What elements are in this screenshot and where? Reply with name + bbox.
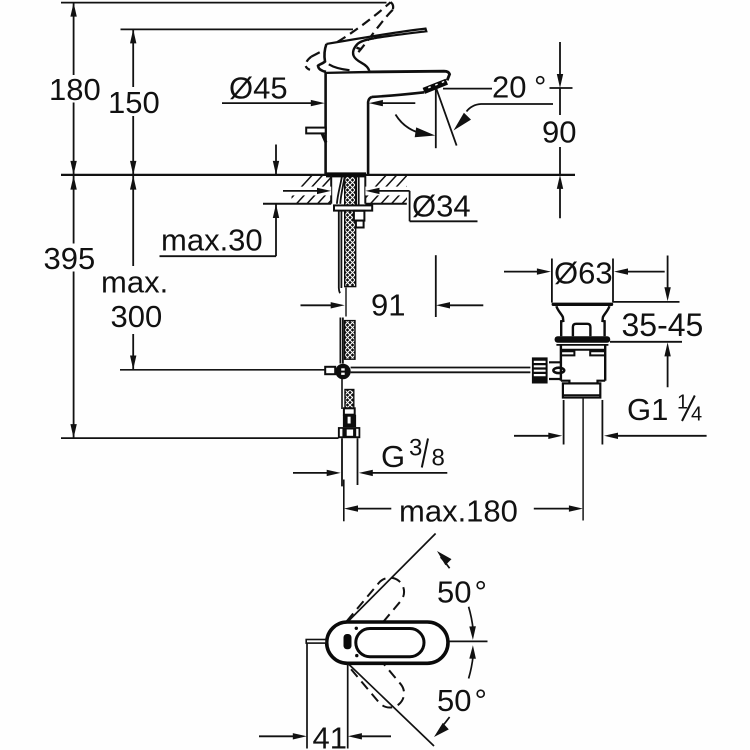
ball joint bbox=[335, 364, 350, 379]
bottom view: lower 50deg arc bbox=[441, 656, 474, 728]
dim Ø63 arrows bbox=[504, 271, 538, 273]
dim 90 shaft bbox=[559, 42, 561, 218]
svg-text:35-45: 35-45 bbox=[622, 307, 704, 343]
dim 91 left arrow bbox=[301, 304, 334, 306]
svg-text:3: 3 bbox=[409, 435, 422, 462]
wire: sink hole left edge bbox=[330, 176, 332, 204]
shank right sleeve lines bbox=[356, 176, 358, 205]
wire: countertop bottom line bbox=[263, 203, 407, 205]
drain overflow slot right bbox=[590, 351, 605, 355]
drain: clevis clip ellipse bbox=[553, 368, 564, 373]
dim G1 1/4 arrows bbox=[514, 435, 550, 437]
rod end cap bbox=[325, 367, 335, 374]
dim Ø45 left arrow bbox=[311, 100, 325, 106]
dim G3/8 arrows bbox=[293, 472, 329, 474]
svg-text:Ø63: Ø63 bbox=[554, 256, 613, 291]
svg-text:°: ° bbox=[475, 575, 487, 610]
phantom lever dashed rear corner bbox=[306, 57, 312, 70]
drain: rod coupler spring bbox=[532, 357, 548, 383]
phantom lever dashed underside bbox=[347, 10, 393, 65]
hose crimp sleeve bbox=[343, 415, 356, 427]
hose ferrule bbox=[344, 408, 355, 414]
pop-up rod diagonal stub bbox=[322, 133, 326, 142]
bottom view: upper 50 deg diagonal bbox=[348, 534, 436, 623]
dim max30 upper shaft bbox=[275, 145, 277, 175]
faucet body front edge L1 bbox=[324, 72, 327, 175]
wire: top extension line for 180 bbox=[61, 2, 387, 4]
dim 180 vertical line bbox=[73, 3, 75, 175]
mounting nut step 2 bbox=[356, 221, 364, 228]
drain neck left bbox=[556, 306, 563, 336]
drain body walls bbox=[561, 345, 605, 381]
svg-text:20: 20 bbox=[492, 70, 526, 105]
svg-text:41: 41 bbox=[313, 721, 347, 750]
svg-text:°: ° bbox=[475, 683, 487, 718]
dim 20deg leader from aerator bbox=[443, 88, 492, 90]
horizontal actuating rod to drain bbox=[351, 368, 531, 373]
dim Ø34 label elbow bbox=[410, 191, 478, 221]
dim Ø45 right arrow and line bbox=[369, 100, 383, 106]
drain: coupler link bbox=[549, 362, 561, 379]
bottom view: small dots bbox=[355, 627, 358, 630]
dim G1 1/4 extension lines bbox=[564, 400, 603, 445]
drain body bottom ledges bbox=[561, 381, 605, 384]
lever indicator mark bbox=[357, 48, 362, 50]
faucet spout top outline bbox=[326, 71, 450, 80]
dim max180 left arrow bbox=[344, 505, 358, 511]
svg-text:4: 4 bbox=[691, 404, 702, 426]
faucet body rear edge L2 (below spout) bbox=[368, 97, 372, 175]
svg-text:50: 50 bbox=[437, 575, 471, 610]
dim 395 arrows bbox=[70, 176, 76, 439]
threaded shank braided band upper bbox=[345, 176, 356, 286]
bottom view: upper 50deg arc bbox=[441, 557, 474, 629]
svg-text:150: 150 bbox=[108, 85, 160, 120]
wire: faucet base seat thick segment bbox=[326, 172, 366, 177]
drain overflow slot left bbox=[561, 351, 575, 355]
drain center line bbox=[582, 398, 584, 521]
lever handle blade top edge bbox=[326, 29, 426, 44]
drain flange walls / Ø63 extension lines bbox=[552, 259, 613, 303]
faucet spout underside bbox=[372, 92, 424, 97]
angle reference tilted line bbox=[436, 89, 456, 146]
svg-text:Ø34: Ø34 bbox=[412, 189, 471, 224]
lever neck front bbox=[353, 38, 374, 70]
supply hose straight walls bbox=[339, 211, 342, 293]
G3/8 hex nut bbox=[338, 427, 360, 438]
angle leader under text with arc to tilted line bbox=[467, 104, 554, 112]
bottom view: outer stadium bbox=[327, 622, 448, 663]
lever white fill mask bbox=[318, 29, 426, 72]
lever rear skirt and lip bbox=[318, 44, 326, 72]
bottom view: inner lever stadium bbox=[356, 629, 424, 657]
svg-text:395: 395 bbox=[44, 241, 96, 276]
mounting washer bbox=[334, 205, 372, 210]
dim 90 tick bbox=[550, 87, 573, 89]
svg-text:8: 8 bbox=[432, 445, 445, 472]
lever belly curve bbox=[329, 64, 350, 70]
dim 91 right extension line bbox=[435, 255, 437, 317]
svg-text:max.180: max.180 bbox=[399, 494, 518, 529]
dim Ø34 arrows bbox=[283, 190, 318, 192]
dim 41 extension lines bbox=[307, 643, 348, 748]
dim 91 right arrow bbox=[436, 302, 450, 308]
hose wall lines above ball bbox=[340, 318, 343, 364]
bottom view: centre line stub right bbox=[449, 640, 488, 642]
supply hose upper curved bbox=[337, 176, 345, 203]
bottom view: dashed lever rotated up bbox=[327, 572, 409, 663]
faucet centre line lower bbox=[343, 480, 345, 522]
hose line below ball bbox=[341, 379, 343, 409]
dim max180 right arrow bbox=[534, 508, 571, 510]
aerator bbox=[424, 82, 447, 91]
dim 180 arrows bbox=[70, 3, 76, 175]
dim max300 arrows bbox=[130, 176, 136, 370]
drain body top bbox=[556, 344, 608, 346]
svg-text:°: ° bbox=[534, 70, 546, 105]
svg-text:50: 50 bbox=[437, 683, 471, 718]
dim 35-45 shafts and arrows bbox=[667, 256, 669, 388]
mounting nut step 1 bbox=[354, 211, 365, 221]
bottom view: lower 50 deg diagonal bbox=[348, 664, 434, 747]
braided hose above nut bbox=[345, 390, 354, 409]
svg-text:Ø45: Ø45 bbox=[229, 71, 288, 106]
wire: bottom extension line for 395 bbox=[61, 437, 339, 439]
dim 35-45 ref line lower bbox=[610, 341, 682, 343]
svg-text:G: G bbox=[381, 439, 405, 474]
wire: countertop top line bbox=[61, 174, 575, 176]
braided hose lower segment bbox=[345, 321, 356, 360]
drain plug stem bbox=[573, 324, 591, 336]
dim 90 arrows bbox=[557, 74, 563, 189]
drain flange plate bbox=[552, 303, 614, 306]
bottom view: cartridge slot bbox=[344, 634, 352, 649]
dim max30 leader line bbox=[160, 255, 277, 257]
dim 150 vertical line bbox=[132, 29, 134, 175]
dim max300 line bbox=[132, 175, 134, 370]
bottom view: dashed lever rotated down bbox=[327, 623, 409, 714]
wire: extension line for 150 bbox=[121, 28, 354, 30]
dim G3/8 extension lines bbox=[342, 438, 358, 486]
drain body inner line bbox=[561, 349, 605, 351]
dim 150 arrows bbox=[130, 29, 136, 175]
wire: sink hole right edge bbox=[364, 176, 366, 204]
long pull rod line bbox=[120, 369, 325, 371]
pop-up rod knob on faucet front bbox=[306, 128, 326, 134]
white mask for Ø34 dimension line through hatch bbox=[282, 187, 331, 196]
dim max30 lower shaft bbox=[275, 204, 277, 257]
drain neck right bbox=[603, 306, 610, 336]
left arc arrow of 20deg bbox=[396, 115, 418, 133]
bottom view: knob stub bbox=[306, 640, 326, 644]
angle reference vertical line bbox=[435, 89, 437, 149]
svg-text:180: 180 bbox=[49, 72, 101, 107]
svg-text:G1: G1 bbox=[627, 392, 668, 427]
drain tailpipe thread stub bbox=[563, 383, 600, 397]
dim 395 line lower part bbox=[73, 175, 75, 438]
phantom lever dashed tip arc bbox=[391, 2, 394, 10]
dim max30 arrows bbox=[273, 161, 279, 218]
phantom lever dashed top edge bbox=[311, 2, 390, 56]
svg-text:max.30: max.30 bbox=[161, 223, 263, 258]
svg-text:max.: max. bbox=[101, 265, 168, 300]
svg-text:300: 300 bbox=[111, 299, 163, 334]
svg-text:91: 91 bbox=[371, 288, 405, 323]
drain seal washer bbox=[555, 336, 611, 343]
hose break mark bbox=[345, 288, 347, 317]
svg-text:90: 90 bbox=[542, 115, 576, 150]
dim 35-45 ref line upper bbox=[613, 301, 679, 303]
dim 41 arrows bbox=[259, 735, 295, 737]
